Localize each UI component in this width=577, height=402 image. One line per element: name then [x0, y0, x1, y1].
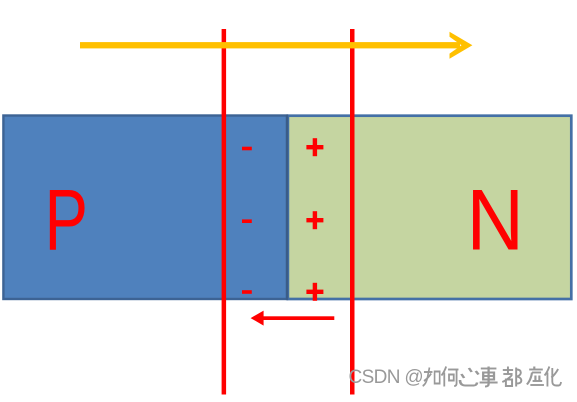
char xu [527, 367, 544, 386]
svg-text:P: P [45, 172, 89, 268]
char he [441, 367, 458, 387]
minus sign 1 [242, 147, 252, 151]
svg-text:CSDN @: CSDN @ [349, 367, 424, 388]
N region (green box) [288, 116, 571, 299]
diffusion arrow (red, pointing left) [251, 311, 335, 326]
minus sign 2 [242, 219, 252, 223]
svg-text:N: N [467, 172, 525, 268]
watermark chinese glyphs (drawn strokes) [423, 367, 561, 387]
plus sign 3 [306, 283, 323, 301]
char xin [460, 368, 478, 386]
plus sign 1 [306, 138, 323, 156]
depletion boundary line right (red vertical) [350, 29, 355, 395]
minus sign 3 [242, 290, 252, 294]
junction line [286, 115, 288, 301]
P region (blue box) [3, 116, 287, 300]
electric field arrow (yellow, pointing right) [80, 32, 472, 59]
char shi [480, 367, 498, 387]
plus sign 2 [306, 211, 323, 229]
char hua [545, 367, 561, 387]
depletion boundary line left (red vertical) [222, 29, 227, 395]
char ru [423, 368, 440, 387]
char dou [502, 367, 521, 387]
